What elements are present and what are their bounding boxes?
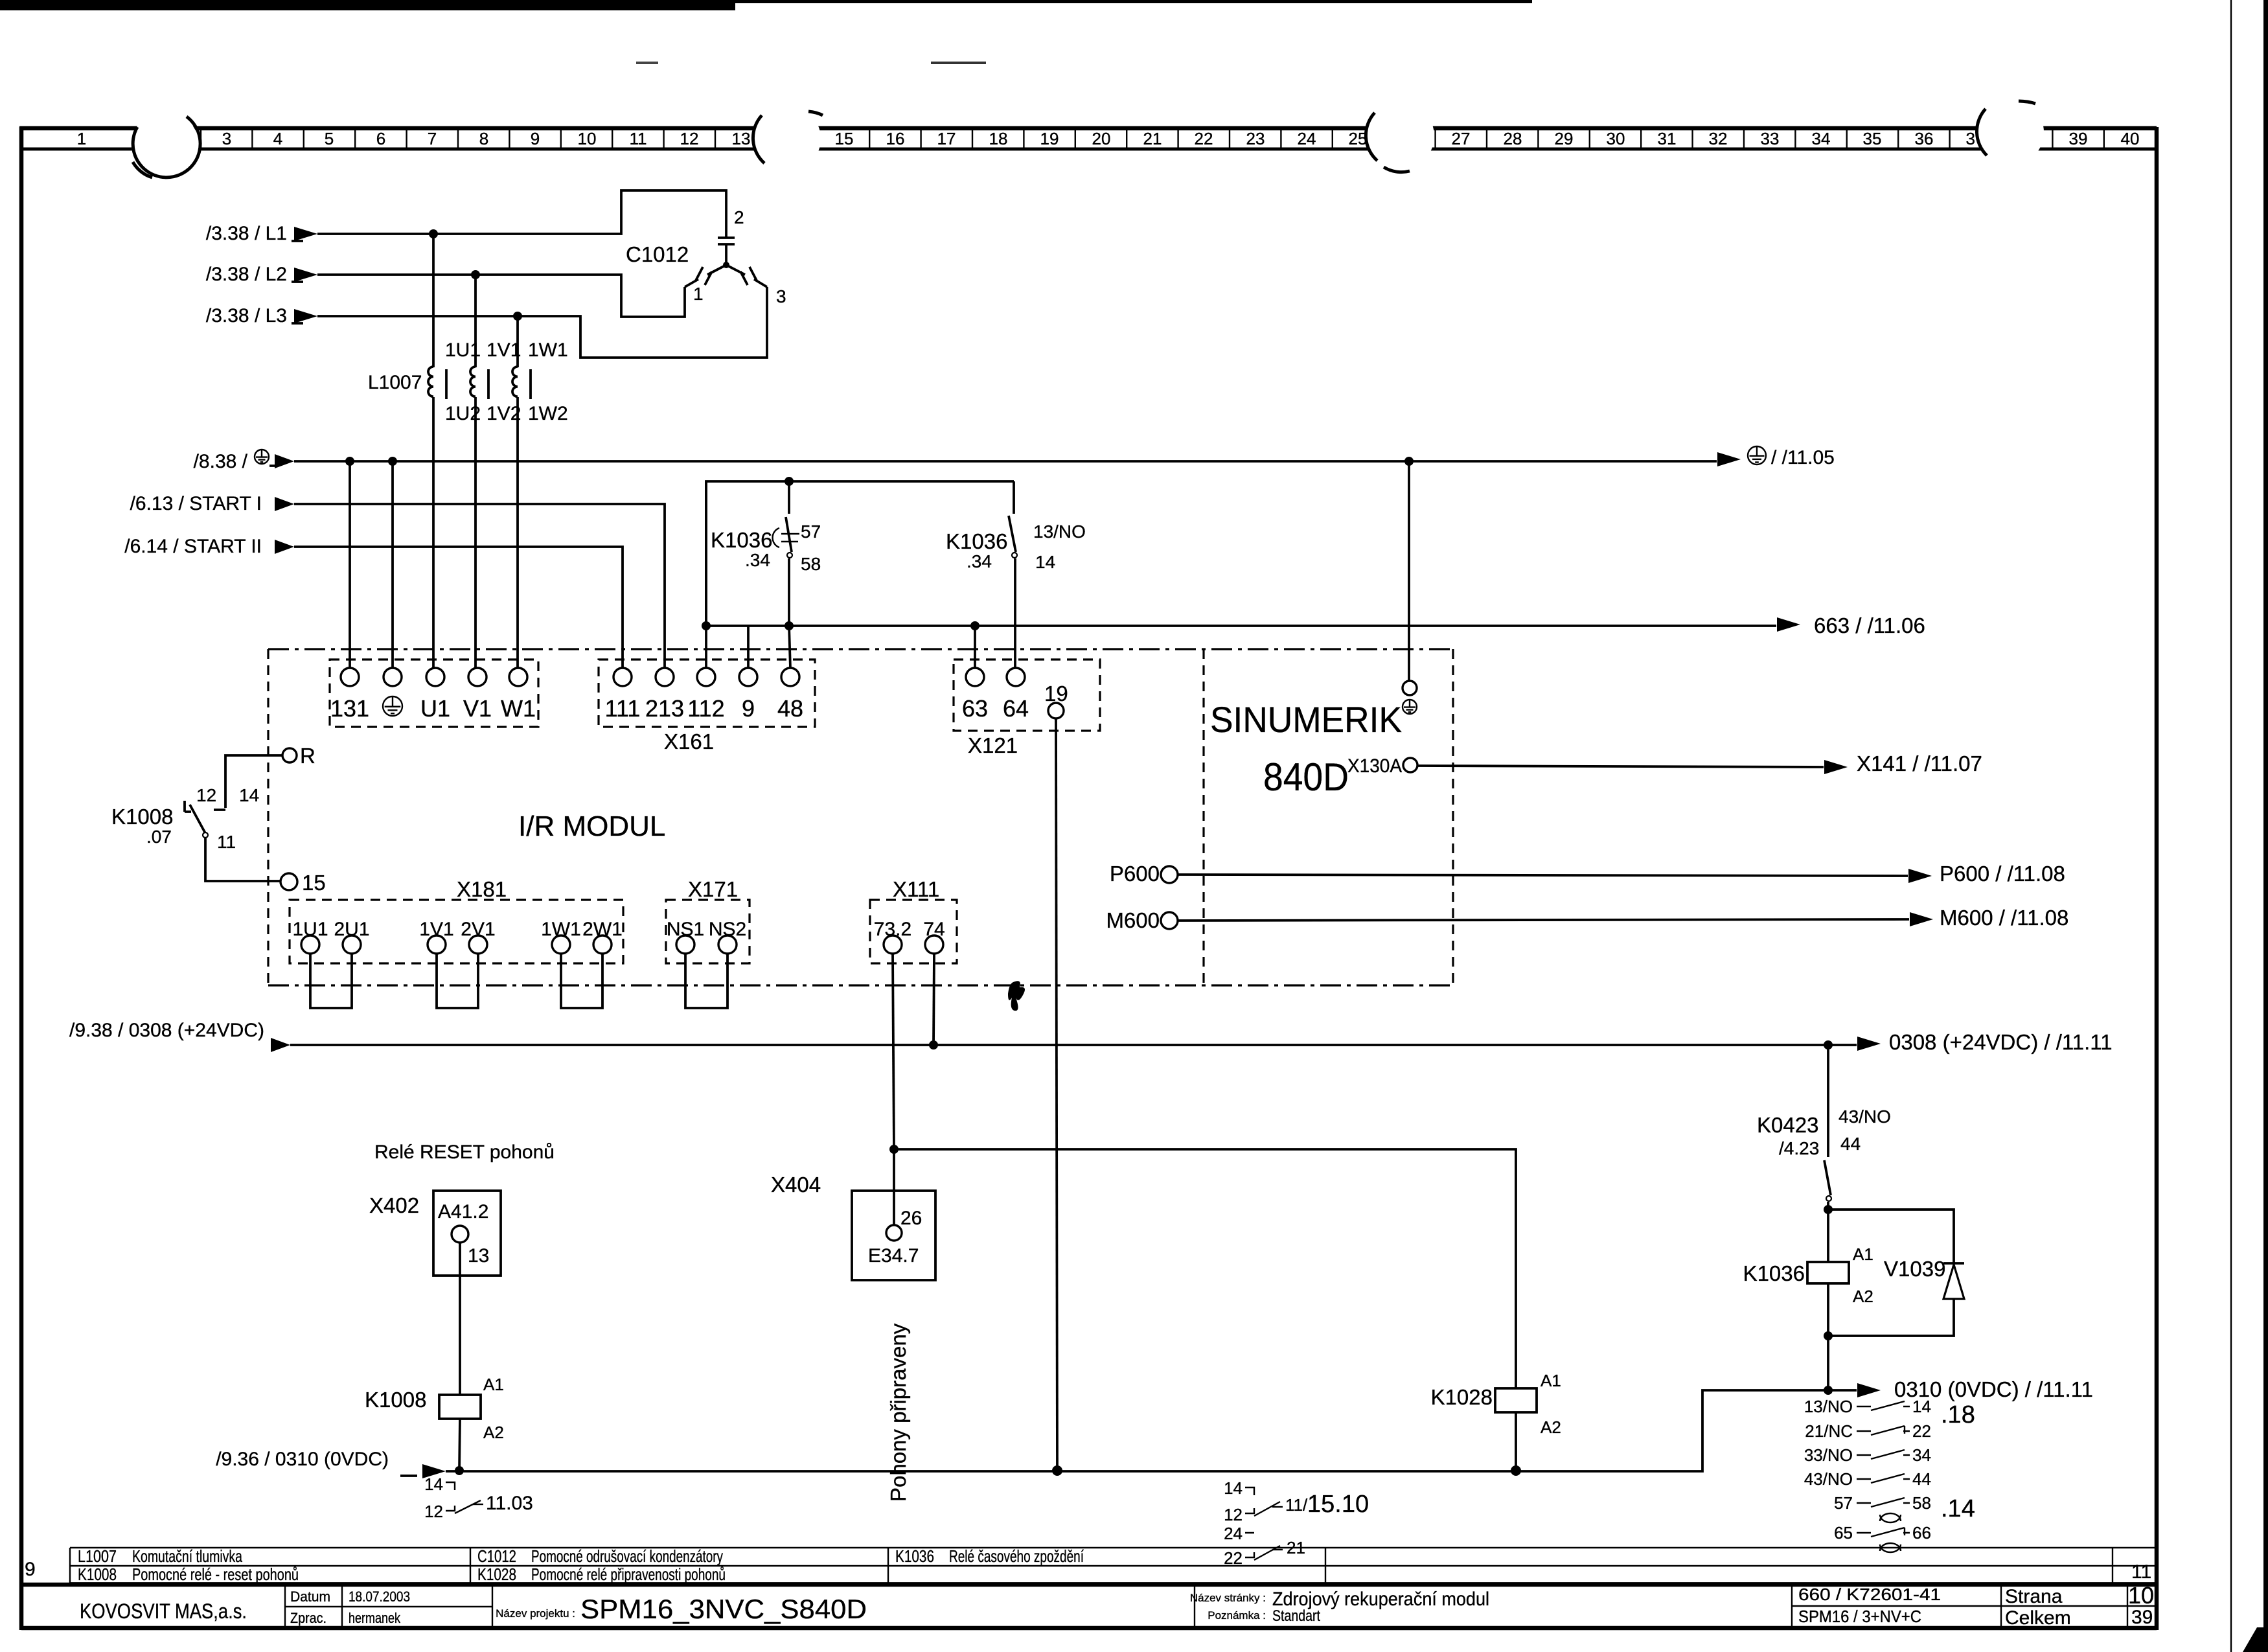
svg-text:33: 33	[1761, 129, 1780, 148]
svg-text:13/NO: 13/NO	[1033, 522, 1086, 542]
svg-text:34: 34	[1812, 129, 1831, 148]
jumper NS1-NS2	[685, 954, 727, 1008]
wire 112 drop	[705, 481, 707, 668]
ruler cell dividers	[140, 130, 2104, 148]
svg-text:22: 22	[1195, 129, 1213, 148]
wire START I to X161:213	[275, 497, 294, 511]
wire 63 drop	[974, 626, 976, 668]
scan artifact: right black strip	[2263, 0, 2268, 1652]
svg-text:Pohony připraveny: Pohony připraveny	[886, 1323, 910, 1502]
svg-text:28: 28	[1504, 129, 1522, 148]
svg-text:A2: A2	[1853, 1287, 1873, 1306]
node rail/48 junction	[785, 621, 794, 630]
jumper 1U1-2U1	[310, 954, 352, 1008]
svg-text:19: 19	[1040, 129, 1059, 148]
svg-text:X404: X404	[771, 1173, 821, 1197]
svg-text:A1: A1	[1541, 1371, 1561, 1390]
svg-text:15: 15	[835, 129, 854, 148]
terminal 64	[1007, 668, 1025, 686]
inductor core bar	[529, 369, 532, 399]
wire X404 pin drop	[893, 1149, 895, 1225]
svg-text:43/NO: 43/NO	[1804, 1469, 1853, 1489]
svg-text:14: 14	[1912, 1397, 1931, 1416]
svg-text:213: 213	[645, 695, 684, 722]
terminal box X181 (dashed)	[290, 900, 623, 963]
node rail/63 junction	[970, 621, 979, 630]
node rail/112 junction	[702, 621, 711, 630]
svg-text:SPM16_3NVC_S840D: SPM16_3NVC_S840D	[580, 1594, 867, 1624]
title block frame	[21, 1583, 2157, 1587]
svg-text:.34: .34	[967, 551, 992, 571]
cross-ref K1028 contacts 24/22 -> 21	[1245, 1533, 1280, 1560]
wire P600 output	[1178, 875, 1908, 876]
svg-text:C1012: C1012	[477, 1546, 516, 1566]
time delay arcs on 57/58 and 65/66	[1880, 1513, 1901, 1522]
svg-text:15.10: 15.10	[1307, 1491, 1369, 1518]
svg-text:10: 10	[2128, 1582, 2154, 1609]
svg-text:L1007: L1007	[78, 1546, 117, 1566]
svg-text:Pomocné odrušovací kondenzátor: Pomocné odrušovací kondenzátory	[531, 1546, 723, 1566]
svg-text:39: 39	[2131, 1607, 2153, 1628]
svg-text:21: 21	[1143, 129, 1162, 148]
svg-text:24: 24	[1298, 129, 1316, 148]
terminal 15	[281, 873, 297, 890]
svg-text:Strana: Strana	[2005, 1586, 2063, 1607]
svg-text:X161: X161	[664, 729, 714, 753]
wire V1039 parallel branch	[1828, 1210, 1954, 1390]
scan artifact: punch hole	[1976, 98, 2044, 166]
svg-text:/ /11.05: / /11.05	[1771, 447, 1835, 468]
wire 131 drop	[349, 461, 351, 668]
wire phase drop x=669	[432, 234, 435, 367]
svg-text:66: 66	[1912, 1523, 1931, 1543]
svg-text:31: 31	[1658, 129, 1677, 148]
svg-text:14: 14	[1035, 552, 1055, 572]
svg-text:P600 / /11.08: P600 / /11.08	[1940, 862, 2065, 886]
svg-text:M600 / /11.08: M600 / /11.08	[1940, 906, 2068, 930]
wire inductor to terminal	[474, 397, 477, 668]
svg-text:11.03: 11.03	[486, 1493, 533, 1514]
svg-text:18.07.2003: 18.07.2003	[349, 1589, 410, 1605]
svg-text:20: 20	[1092, 129, 1111, 148]
wire 74 drop to 0308	[934, 954, 934, 1045]
wire phase drop x=734	[474, 275, 477, 367]
inductor L1007 coil	[512, 367, 518, 396]
svg-text:48: 48	[777, 695, 803, 722]
svg-text:1V2: 1V2	[487, 403, 521, 424]
svg-text:hermanek: hermanek	[349, 1610, 401, 1626]
svg-text:25: 25	[1349, 129, 1368, 148]
wire PE ground bus	[275, 454, 294, 468]
SINUMERIK 840D boundary (dashed)	[1202, 649, 1204, 985]
wire 0308 rail	[271, 1038, 290, 1052]
svg-text:1W1: 1W1	[528, 339, 568, 361]
wire inductor to terminal	[432, 397, 435, 668]
svg-text:12: 12	[1224, 1505, 1243, 1524]
svg-text:K1036: K1036	[711, 528, 772, 552]
svg-text:12: 12	[196, 785, 216, 805]
svg-text:3: 3	[222, 129, 231, 148]
svg-text:8: 8	[479, 129, 488, 148]
svg-text:30: 30	[1607, 129, 1625, 148]
svg-text:58: 58	[1912, 1493, 1931, 1513]
wire inductor to terminal	[516, 397, 519, 668]
terminal 131	[341, 668, 359, 686]
svg-text:1V1: 1V1	[487, 339, 521, 361]
scan artifact: punch hole	[753, 105, 821, 172]
svg-text:39: 39	[2069, 129, 2088, 148]
svg-text:V1039: V1039	[1884, 1257, 1945, 1281]
svg-text:X402: X402	[369, 1193, 419, 1217]
svg-text:1: 1	[77, 129, 86, 148]
svg-text:29: 29	[1555, 129, 1574, 148]
wire contact to terminal 15	[205, 838, 281, 881]
svg-text:1W2: 1W2	[528, 403, 568, 424]
svg-text:K1028: K1028	[1431, 1385, 1493, 1409]
svg-text:/3.38 / L1: /3.38 / L1	[206, 223, 287, 244]
svg-text:K1008: K1008	[365, 1388, 426, 1412]
svg-text:1U2: 1U2	[445, 403, 481, 424]
svg-text:U1: U1	[420, 695, 450, 722]
svg-text:X171: X171	[688, 877, 738, 901]
svg-text:23: 23	[1246, 129, 1265, 148]
svg-text:K1008: K1008	[78, 1565, 117, 1584]
svg-text:36: 36	[1915, 129, 1934, 148]
capacitor C1012 unit 1 (diagonal)	[685, 265, 726, 287]
svg-text:131: 131	[330, 695, 369, 722]
node PE/SINUMERIK junction	[1404, 457, 1414, 466]
jumper 1W1-2W1	[561, 954, 602, 1008]
svg-text:5: 5	[325, 129, 334, 148]
terminal box X111 (dashed)	[870, 900, 957, 963]
capacitor C1012 unit 3 (diagonal)	[726, 265, 767, 287]
node rail/57-contact junction	[785, 477, 794, 486]
terminal R	[282, 748, 297, 763]
terminal box X171 (dashed)	[666, 900, 750, 963]
wire START II to X161:111	[275, 540, 294, 554]
svg-text:A2: A2	[483, 1423, 504, 1442]
svg-text:Zprac.: Zprac.	[290, 1610, 326, 1626]
capacitor C1012 unit 2 (plates)	[718, 238, 735, 244]
svg-text:660 / K72601-41: 660 / K72601-41	[1798, 1585, 1941, 1604]
wire K1028 A2 to 0VDC	[1515, 1412, 1517, 1471]
wire contact feeder rail upper	[706, 481, 1014, 626]
svg-text:58: 58	[801, 554, 821, 574]
svg-text:15: 15	[302, 871, 326, 895]
svg-text:111: 111	[605, 695, 641, 722]
svg-text:C1012: C1012	[626, 242, 689, 266]
node 0308/K0423 junction	[1824, 1040, 1833, 1050]
svg-text:9: 9	[25, 1559, 36, 1580]
svg-text:13: 13	[732, 129, 751, 148]
svg-text:7: 7	[428, 129, 437, 148]
node 0308/74 junction	[929, 1040, 938, 1050]
svg-text:K1008: K1008	[111, 805, 173, 829]
wire branch to K1028 coil	[894, 1149, 1516, 1388]
svg-text:14: 14	[239, 785, 259, 805]
scan artifact: punch hole	[1367, 102, 1434, 170]
legend table grid	[70, 1548, 2157, 1583]
wire 73.2 drop to X404	[893, 954, 894, 1149]
wire 19 drop to 0VDC rail	[1056, 718, 1057, 1471]
page frame: left border	[19, 127, 24, 1630]
svg-text:/4.23: /4.23	[1779, 1138, 1819, 1158]
inductor L1007 coil	[470, 367, 475, 396]
terminal W1	[509, 668, 527, 686]
terminal 112	[697, 668, 715, 686]
terminal 9	[739, 668, 757, 686]
svg-text:1: 1	[693, 284, 704, 304]
contact blade K1008	[185, 801, 206, 834]
svg-text:Komutační tlumivka: Komutační tlumivka	[132, 1546, 242, 1566]
svg-text:2: 2	[734, 207, 744, 227]
svg-text:.34: .34	[745, 550, 770, 570]
svg-text:A1: A1	[483, 1375, 504, 1394]
svg-text:/6.13 / START I: /6.13 / START I	[130, 493, 262, 514]
terminal box X161 (dashed)	[599, 660, 815, 727]
wire SINUMERIK PE drop	[1408, 461, 1410, 681]
inductor core bar	[445, 369, 448, 399]
svg-text:65: 65	[1834, 1523, 1853, 1543]
terminal 213	[656, 668, 674, 686]
wire phase drop x=799	[516, 316, 519, 367]
node C1012 star point	[723, 262, 729, 268]
svg-text:SPM16 / 3+NV+C: SPM16 / 3+NV+C	[1798, 1607, 1921, 1626]
svg-text:Relé časového zpoždění: Relé časového zpoždění	[949, 1546, 1084, 1566]
svg-text:663 / /11.06: 663 / /11.06	[1814, 614, 1925, 637]
svg-text:K1036: K1036	[946, 529, 1007, 553]
ruler band bottom edge	[19, 148, 2157, 151]
terminal box 131..W1 (dashed)	[330, 660, 538, 727]
svg-text:27: 27	[1452, 129, 1471, 148]
svg-text:.18: .18	[1941, 1401, 1975, 1428]
scan artifact ink blob	[1008, 981, 1025, 1011]
wire R to contact	[214, 755, 282, 810]
svg-text:32: 32	[1709, 129, 1728, 148]
scan artifact: punch hole	[132, 111, 199, 179]
svg-text:11: 11	[630, 129, 647, 148]
node 0310/K1008 junction	[455, 1466, 464, 1475]
svg-text:64: 64	[1003, 695, 1029, 722]
svg-text:11: 11	[217, 832, 236, 852]
svg-text:26: 26	[900, 1208, 922, 1229]
svg-text:9: 9	[742, 695, 755, 722]
svg-text:K1036: K1036	[1743, 1261, 1805, 1285]
svg-text:21/NC: 21/NC	[1805, 1421, 1853, 1441]
wire 663 rail	[706, 625, 1776, 627]
wire 48 drop	[789, 626, 790, 668]
svg-text:X130A: X130A	[1347, 755, 1402, 777]
svg-text:I/R MODUL: I/R MODUL	[518, 810, 665, 842]
scan artifact: top black band	[0, 0, 735, 10]
wire 0310 rail	[422, 1464, 446, 1478]
terminal 48	[781, 668, 799, 686]
svg-text:13/NO: 13/NO	[1804, 1397, 1853, 1416]
svg-text:43/NO: 43/NO	[1838, 1107, 1891, 1127]
svg-text:X121: X121	[968, 733, 1018, 757]
svg-text:0308 (+24VDC) / /11.11: 0308 (+24VDC) / /11.11	[1889, 1030, 2113, 1054]
svg-text:M600: M600	[1106, 908, 1160, 932]
svg-text:44: 44	[1840, 1134, 1861, 1154]
svg-text:L1007: L1007	[368, 372, 422, 393]
svg-text:X141 / /11.07: X141 / /11.07	[1857, 751, 1982, 775]
cross-ref K1008 contacts 14/12 -> 11.03	[446, 1482, 481, 1513]
svg-text:12: 12	[424, 1502, 443, 1521]
svg-text:11/: 11/	[1285, 1495, 1308, 1515]
svg-text:P600: P600	[1110, 862, 1160, 886]
node L3/1W1 junction	[513, 312, 522, 321]
svg-text:Pomocné relé připravenosti poh: Pomocné relé připravenosti pohonů	[531, 1565, 726, 1584]
svg-text:44: 44	[1912, 1469, 1931, 1489]
svg-text:4: 4	[273, 129, 282, 148]
svg-text:57: 57	[801, 522, 821, 542]
wire X402 to K1008 coil	[459, 1243, 461, 1395]
svg-text:/9.36 / 0310 (0VDC): /9.36 / 0310 (0VDC)	[216, 1449, 389, 1470]
svg-text:V1: V1	[463, 695, 492, 722]
svg-text:/9.38 / 0308 (+24VDC): /9.38 / 0308 (+24VDC)	[69, 1020, 264, 1041]
svg-text:.07: .07	[146, 827, 172, 847]
svg-text:40: 40	[2121, 129, 2140, 148]
svg-text:34: 34	[1912, 1445, 1931, 1465]
svg-text:9: 9	[531, 129, 540, 148]
terminal 111	[613, 668, 632, 686]
svg-text:K0423: K0423	[1757, 1113, 1818, 1137]
svg-text:Název projektu :: Název projektu :	[496, 1607, 575, 1620]
ruler band top edge	[19, 126, 2157, 131]
node 0310/19-wire junction	[1052, 1465, 1062, 1476]
svg-text:X181: X181	[457, 877, 507, 901]
svg-text:/3.38 / L2: /3.38 / L2	[206, 264, 287, 285]
terminal 63	[966, 668, 984, 686]
wire L1 with source arrow	[294, 227, 317, 241]
connector X404 box	[852, 1191, 935, 1280]
node PE/earth-terminal junction	[388, 457, 397, 466]
svg-text:18: 18	[989, 129, 1008, 148]
svg-text:Datum: Datum	[290, 1589, 330, 1605]
svg-text:Název stránky :: Název stránky :	[1190, 1592, 1266, 1604]
svg-text:10: 10	[578, 129, 597, 148]
svg-text:16: 16	[886, 129, 905, 148]
svg-text:1U1: 1U1	[445, 339, 481, 361]
terminal X130A	[1403, 758, 1417, 772]
page frame: right outer thin border	[2230, 0, 2232, 1652]
svg-text:KOVOSVIT MAS,a.s.: KOVOSVIT MAS,a.s.	[80, 1600, 247, 1623]
svg-text:17: 17	[937, 129, 956, 148]
svg-text:A41.2: A41.2	[438, 1201, 488, 1222]
svg-text:63: 63	[962, 695, 988, 722]
wire K1008 A2 to 0VDC	[459, 1419, 460, 1471]
svg-text:35: 35	[1863, 129, 1882, 148]
terminal SINUMERIK PE	[1403, 681, 1417, 695]
svg-text:14: 14	[424, 1474, 443, 1494]
terminal box X121 (dashed)	[954, 660, 1100, 731]
net label PE / /11.05	[1748, 446, 1766, 465]
terminal X402 pin	[452, 1226, 468, 1243]
I/R MODUL boundary box (dash-dot)	[268, 648, 1453, 650]
svg-text:12: 12	[680, 129, 699, 148]
terminal X404 pin 26	[886, 1225, 902, 1241]
connector X402 box	[433, 1191, 501, 1276]
inductor L1007 coil	[428, 367, 433, 396]
svg-text:Celkem: Celkem	[2005, 1607, 2071, 1629]
svg-text:SINUMERIK: SINUMERIK	[1210, 699, 1402, 740]
svg-text:22: 22	[1912, 1421, 1931, 1441]
svg-text:Relé RESET pohonů: Relé RESET pohonů	[374, 1141, 555, 1163]
cross-ref K1028 contacts 14/12 -> 11/15.10	[1245, 1487, 1280, 1516]
node K1036 coil bottom junction	[1824, 1331, 1833, 1340]
page frame: right inner border	[2155, 127, 2159, 1630]
svg-text:840D: 840D	[1263, 755, 1349, 799]
terminal U1	[426, 668, 444, 686]
wire 9 branch	[747, 626, 750, 668]
svg-text:/8.38 /: /8.38 /	[194, 451, 248, 472]
svg-text:A1: A1	[1853, 1245, 1873, 1264]
svg-text:112: 112	[687, 695, 724, 722]
svg-text:A2: A2	[1541, 1417, 1561, 1437]
node 0310/K1036 junction	[1824, 1386, 1833, 1395]
svg-text:Pomocné relé - reset pohonů: Pomocné relé - reset pohonů	[132, 1565, 299, 1584]
svg-text:Poznámka :: Poznámka :	[1208, 1609, 1266, 1622]
svg-text:E34.7: E34.7	[868, 1245, 919, 1267]
node K1036 coil top junction	[1824, 1205, 1833, 1214]
svg-text:W1: W1	[501, 695, 536, 722]
wire L3 with source arrow	[294, 309, 317, 323]
node PE/131 junction	[345, 457, 354, 466]
svg-text:57: 57	[1834, 1493, 1853, 1513]
svg-text:3: 3	[776, 286, 786, 306]
node 0310/K1028 junction	[1511, 1465, 1521, 1476]
svg-text:6: 6	[376, 129, 385, 148]
wire M600 output	[1178, 919, 1909, 921]
node L2/1V1 junction	[471, 270, 480, 279]
svg-text:K1036: K1036	[895, 1546, 934, 1566]
node L1/1U1 junction	[429, 229, 438, 238]
svg-text:K1028: K1028	[477, 1565, 516, 1584]
svg-text:24: 24	[1224, 1524, 1243, 1543]
wire earth-terminal drop	[391, 461, 394, 668]
svg-text:.14: .14	[1941, 1495, 1975, 1522]
inductor core bar	[487, 369, 490, 399]
terminal V1	[468, 668, 487, 686]
jumper 1V1-2V1	[437, 954, 478, 1008]
svg-text:13: 13	[468, 1245, 489, 1267]
svg-text:/3.38 / L3: /3.38 / L3	[206, 305, 287, 327]
svg-text:11: 11	[2131, 1561, 2151, 1583]
svg-text:Standart: Standart	[1272, 1607, 1320, 1625]
svg-text:X111: X111	[893, 877, 939, 901]
svg-text:14: 14	[1224, 1478, 1243, 1498]
node 73.2/K1028 branch junction	[889, 1145, 899, 1154]
wire X141 output	[1417, 766, 1824, 767]
wire L2 with source arrow	[294, 268, 317, 282]
svg-text:33/NO: 33/NO	[1804, 1445, 1853, 1465]
svg-text:22: 22	[1224, 1548, 1243, 1568]
wire cap2 to star node	[725, 244, 727, 265]
svg-text:/6.14 / START II: /6.14 / START II	[124, 536, 262, 557]
terminal PE	[384, 668, 402, 686]
svg-text:R: R	[300, 744, 315, 768]
